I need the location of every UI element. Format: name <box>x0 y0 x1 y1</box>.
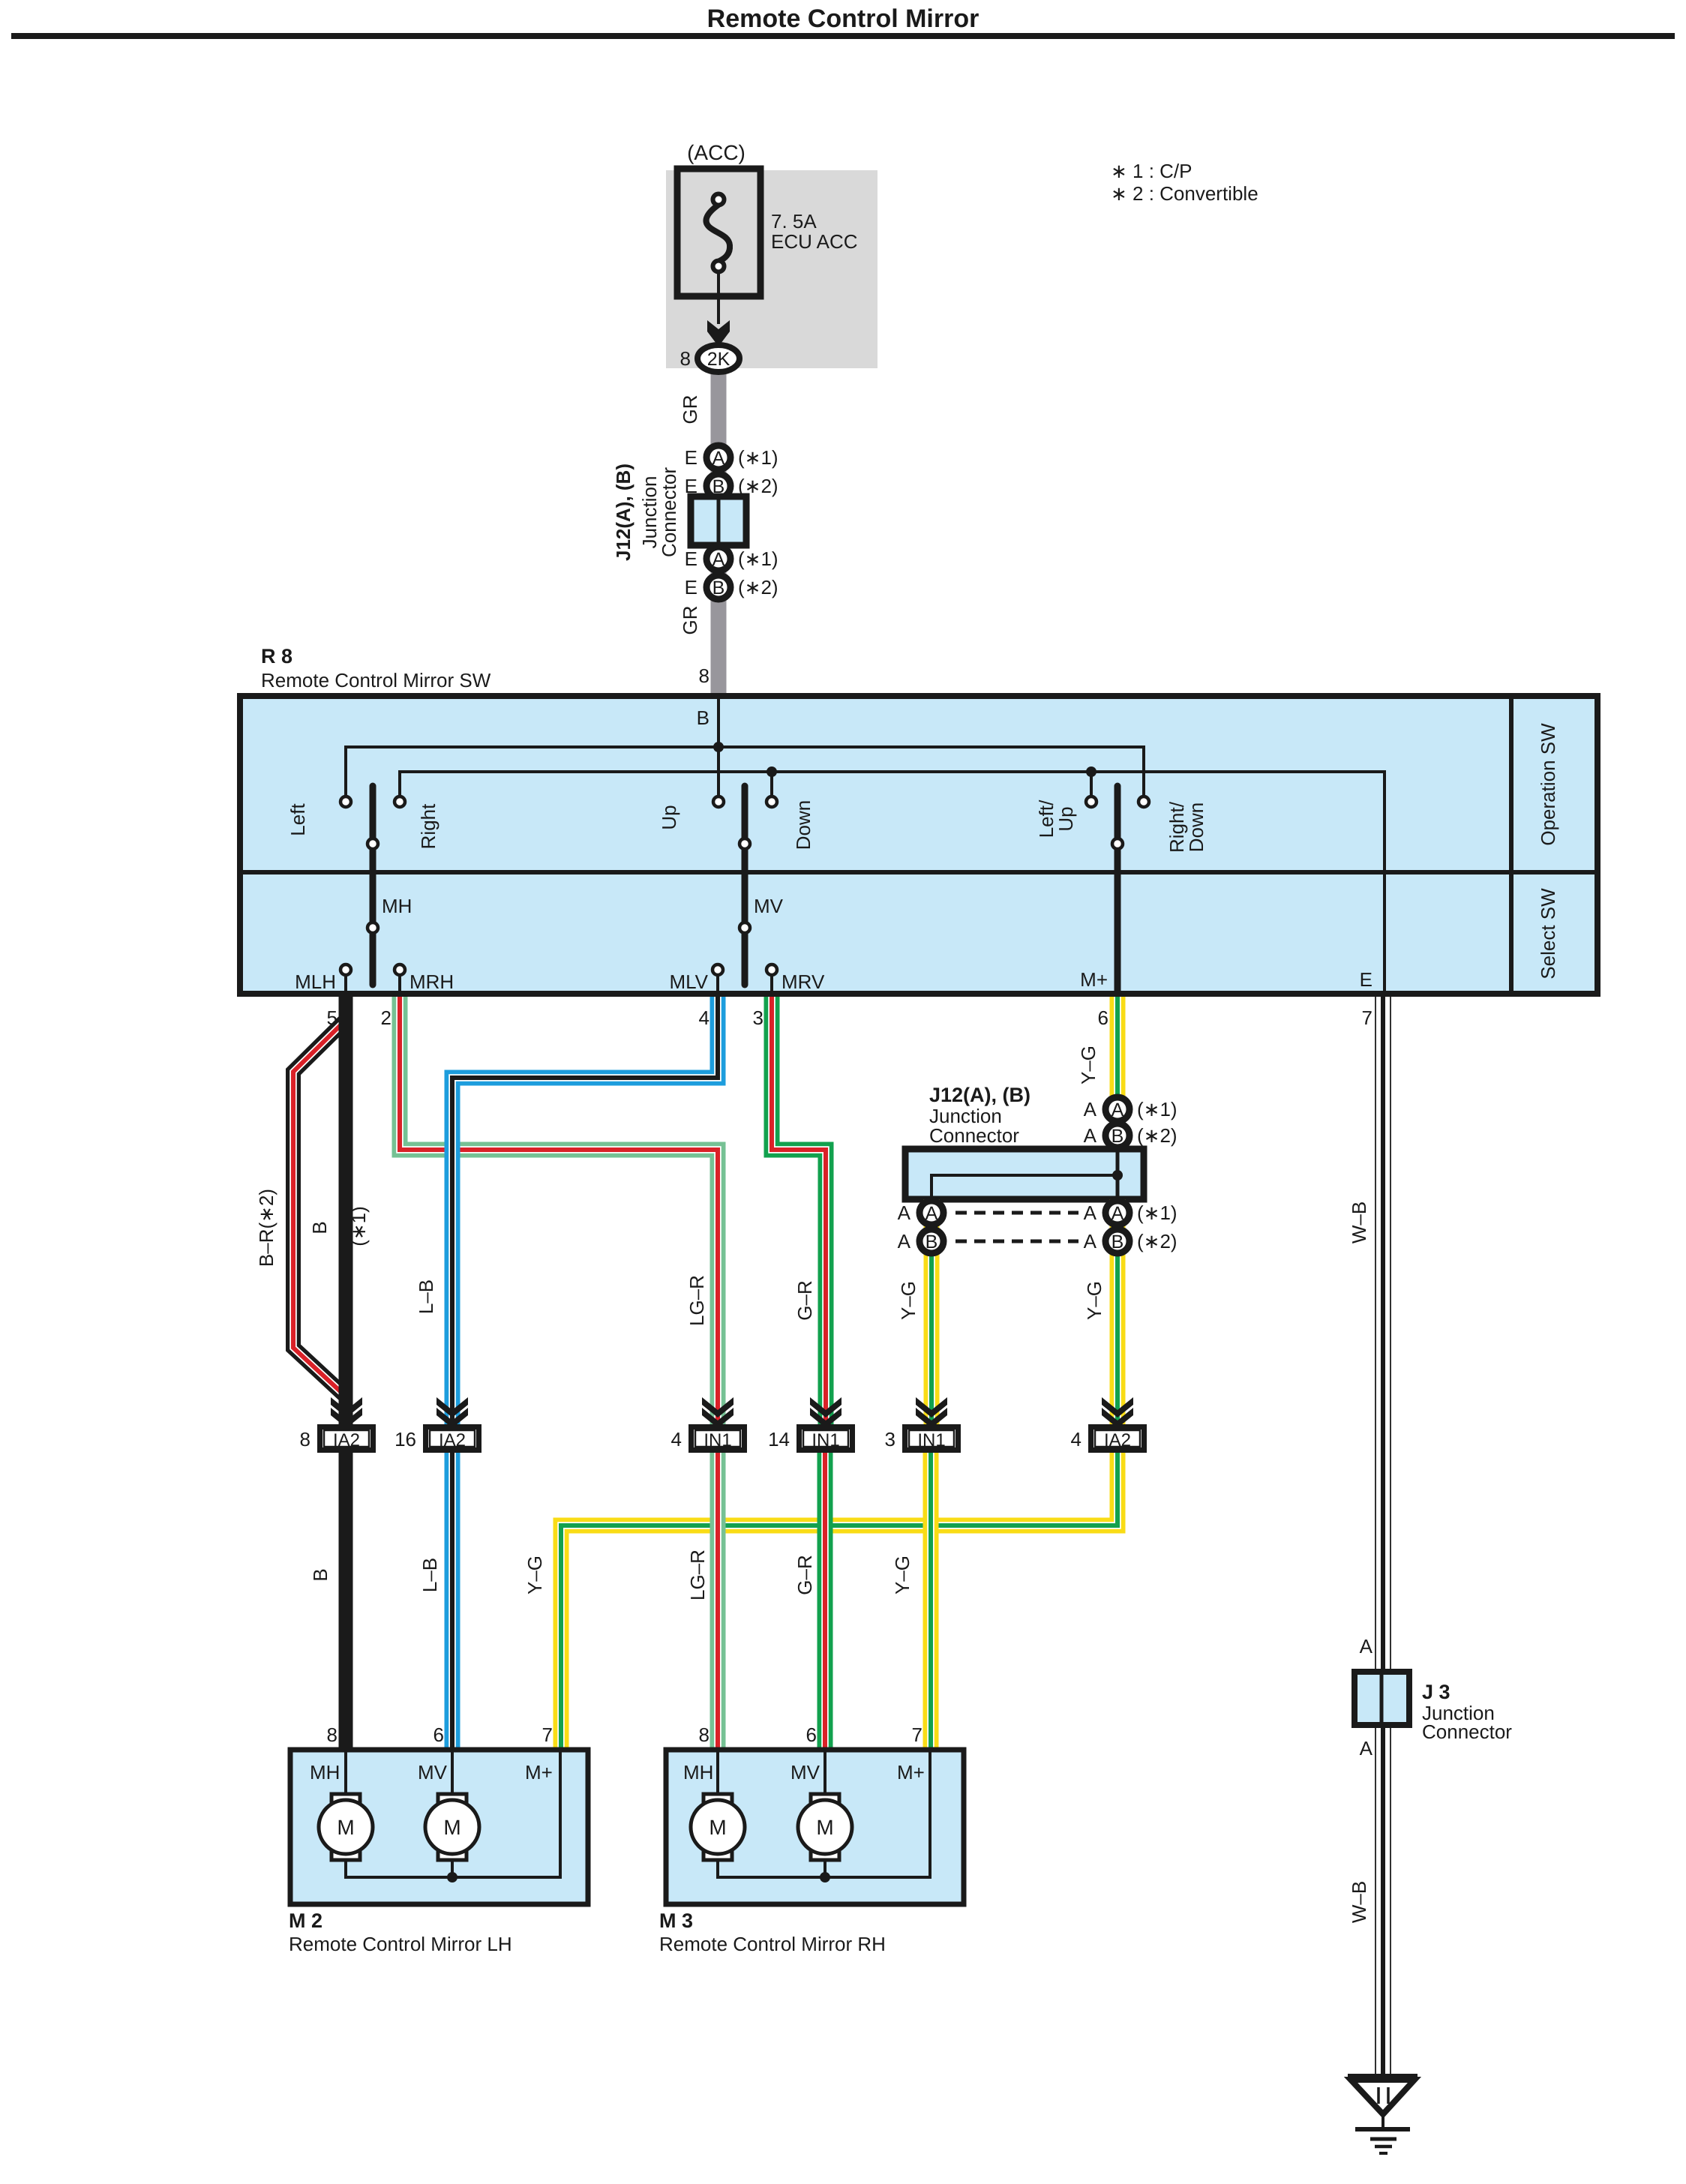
M2 wire MV to motor <box>451 1750 454 1798</box>
terminal MRV <box>766 964 825 994</box>
svg-text:Connector: Connector <box>1422 1720 1512 1743</box>
motor M (M3 vertical) <box>798 1794 852 1860</box>
wire L-B: IA2 pin16 to mirror M2 MV <box>445 1453 460 1751</box>
svg-text:MV: MV <box>790 1761 820 1783</box>
wire LG-R: IN1 pin4 to mirror M3 MH <box>710 1453 726 1751</box>
junction dot B bus <box>713 742 724 752</box>
terminal MRH <box>394 964 454 994</box>
svg-text:7: 7 <box>912 1723 922 1746</box>
svg-text:B: B <box>925 1231 938 1252</box>
svg-text:A: A <box>712 448 725 469</box>
wire: drop to Left/Up contact <box>1090 772 1093 796</box>
svg-text:E: E <box>685 547 697 570</box>
M2 wire M+ bus <box>344 1750 562 1877</box>
wire GR from 2K to R8 pin 8 <box>711 367 727 696</box>
svg-text:M+: M+ <box>525 1761 553 1783</box>
svg-text:Y–G: Y–G <box>897 1281 919 1320</box>
label J12(A),(B) Junction Connector (rotated) <box>612 463 680 561</box>
arrow into 2K <box>707 320 730 346</box>
M3 wire MH to motor <box>716 1750 719 1798</box>
terminal MLH <box>295 964 351 994</box>
svg-text:GR: GR <box>679 606 701 635</box>
junction dot Down contact <box>766 766 777 777</box>
svg-text:A: A <box>1360 1737 1373 1759</box>
contact Down <box>766 796 777 807</box>
svg-text:A: A <box>1084 1098 1097 1120</box>
svg-text:Connector: Connector <box>929 1124 1019 1147</box>
wire B-R (*2): MLH pin5 branch <box>293 1021 344 1395</box>
svg-text:(∗2): (∗2) <box>1137 1124 1177 1147</box>
svg-text:4: 4 <box>699 1006 709 1029</box>
connector oval 2K <box>697 345 739 372</box>
svg-text:A: A <box>1084 1230 1097 1252</box>
svg-text:(ACC): (ACC) <box>687 141 745 164</box>
connector IN1 pin 14 <box>768 1427 852 1451</box>
wire Y-G: M+ pin6 to J12 lower <box>1110 997 1126 1152</box>
svg-text:E: E <box>685 576 697 598</box>
svg-text:8: 8 <box>699 664 709 687</box>
svg-text:IA2: IA2 <box>439 1430 466 1450</box>
svg-text:8: 8 <box>699 1723 709 1746</box>
svg-text:8: 8 <box>300 1428 310 1450</box>
svg-text:MV: MV <box>754 895 784 917</box>
wire: E bus horizontal (Right/Down/LeftUp to E) <box>400 772 1384 994</box>
svg-text:(∗1): (∗1) <box>738 547 778 570</box>
svg-text:A: A <box>1111 1099 1124 1120</box>
svg-text:LG–R: LG–R <box>686 1549 709 1600</box>
arrow into IA2 pin8 <box>331 1397 362 1428</box>
svg-text:R 8: R 8 <box>261 645 292 667</box>
svg-text:IA2: IA2 <box>1104 1430 1131 1450</box>
svg-text:G–R: G–R <box>793 1280 816 1320</box>
dashed link B-B <box>955 1240 1078 1243</box>
svg-text:J12(A), (B): J12(A), (B) <box>929 1084 1030 1106</box>
junction connector J12 below-box pin A/A circle right (*1) <box>1084 1201 1177 1225</box>
svg-text:MRV: MRV <box>781 970 825 993</box>
svg-text:Up: Up <box>1054 806 1077 831</box>
title rule <box>11 33 1675 39</box>
arrow into IN1 pin14 <box>810 1397 841 1428</box>
svg-text:6: 6 <box>1098 1006 1108 1029</box>
svg-text:L–B: L–B <box>415 1279 437 1314</box>
wire: fuse to 2K <box>717 271 720 324</box>
svg-text:M+: M+ <box>1080 968 1108 991</box>
svg-text:MLV: MLV <box>669 970 708 993</box>
junction connector J3 <box>1354 1672 1409 1725</box>
junction dot Left/Up contact <box>1086 766 1096 777</box>
junction connector J12 upper: pin E/B circle <box>685 474 778 498</box>
svg-text:E: E <box>1360 968 1372 991</box>
wire: drop to Down contact <box>770 772 773 796</box>
svg-text:Remote Control Mirror RH: Remote Control Mirror RH <box>659 1933 886 1955</box>
svg-text:A: A <box>898 1230 911 1252</box>
ground symbol <box>1348 2077 1417 2153</box>
svg-text:Operation SW: Operation SW <box>1537 723 1559 846</box>
svg-text:M: M <box>709 1816 726 1839</box>
svg-text:Down: Down <box>792 800 814 850</box>
junction connector J12(A),(B) upper: pin E/A circle <box>685 445 778 469</box>
svg-text:M: M <box>443 1816 460 1839</box>
svg-text:A: A <box>1084 1124 1097 1147</box>
svg-text:A: A <box>1360 1635 1373 1657</box>
motor M (M2 horizontal) <box>319 1794 373 1860</box>
svg-text:6: 6 <box>806 1723 817 1746</box>
label Left/Up (rotated) <box>1035 799 1077 838</box>
svg-text:Up: Up <box>658 805 680 829</box>
svg-text:A: A <box>898 1201 911 1224</box>
connector IA2 pin 8 <box>300 1427 373 1451</box>
fuse 7.5A ECU ACC <box>677 169 858 296</box>
svg-text:8: 8 <box>680 347 691 370</box>
svg-text:Y–G: Y–G <box>1077 1045 1099 1084</box>
svg-text:Left: Left <box>286 803 309 836</box>
junction connector J12 below-box pin A/A circle left <box>898 1201 943 1225</box>
wire Y-G: J12 lower right leg to IA2 pin4 <box>1110 1199 1126 1424</box>
svg-text:Remote Control Mirror SW: Remote Control Mirror SW <box>261 669 491 691</box>
svg-text:M: M <box>337 1816 354 1839</box>
svg-text:8: 8 <box>327 1723 337 1746</box>
arrow into IN1 pin4 <box>702 1397 733 1428</box>
terminal MLV <box>669 964 723 994</box>
switch pole MH <box>367 786 412 985</box>
switch pole M+ <box>1112 786 1123 994</box>
svg-text:Connector: Connector <box>658 467 680 557</box>
junction connector J12 below-box pin A/B circle right (*2) <box>1084 1229 1177 1253</box>
junction connector J12 upper: lower pin E/B circle <box>685 575 778 599</box>
svg-text:M+: M+ <box>897 1761 925 1783</box>
motor M (M2 vertical) <box>425 1794 479 1860</box>
arrow into IA2 pin16 <box>436 1397 468 1428</box>
svg-text:Select SW: Select SW <box>1537 888 1559 979</box>
wire Y-G: J12 lower left leg to IN1 pin3 <box>924 1199 940 1424</box>
svg-text:B: B <box>697 706 709 729</box>
svg-text:E: E <box>685 446 697 469</box>
svg-text:3: 3 <box>753 1006 763 1029</box>
fuse block background <box>666 170 877 368</box>
svg-text:7. 5A: 7. 5A <box>771 210 817 232</box>
svg-text:A: A <box>925 1203 938 1224</box>
M2 wire MH to motor <box>344 1750 347 1798</box>
contact Right/Down <box>1138 796 1149 807</box>
mirror M2 Remote Control Mirror LH body <box>290 1750 588 1904</box>
wire Y-G: IA2 pin4 down-left to mirror M2 M+ <box>561 1453 1117 1751</box>
svg-text:(∗1): (∗1) <box>1137 1201 1177 1224</box>
svg-text:W–B: W–B <box>1348 1881 1370 1923</box>
svg-text:(∗1): (∗1) <box>738 446 778 469</box>
svg-text:IN1: IN1 <box>703 1430 731 1450</box>
junction connector J12 lower: pin A/A circle (*1) <box>1084 1097 1177 1121</box>
contact Up <box>713 796 724 807</box>
svg-text:∗ 1 : C/P: ∗ 1 : C/P <box>1111 160 1192 182</box>
svg-text:IN1: IN1 <box>917 1430 945 1450</box>
junction connector J12 lower box <box>905 1149 1144 1199</box>
svg-text:∗ 2 : Convertible: ∗ 2 : Convertible <box>1111 182 1258 205</box>
wire B: MLH pin5 to connector IA2 pin8 <box>339 997 353 1425</box>
motor M (M3 horizontal) <box>691 1794 745 1860</box>
svg-text:Y–G: Y–G <box>1083 1281 1105 1320</box>
label J12(A),(B) Junction Connector (middle) <box>929 1084 1030 1147</box>
svg-text:B: B <box>309 1568 331 1581</box>
wire LG-R: MRH pin2 to connector IN1 pin4 <box>400 997 718 1424</box>
wire G-R: IN1 pin14 to mirror M3 MV <box>817 1453 833 1751</box>
svg-text:Remote Control Mirror: Remote Control Mirror <box>707 4 979 33</box>
connector IN1 pin 3 <box>885 1427 958 1451</box>
arrow into IN1 pin3 <box>916 1397 947 1428</box>
svg-text:(∗2): (∗2) <box>738 576 778 598</box>
junction connector J12 upper: lower pin E/A circle <box>685 547 778 571</box>
label J 3 Junction Connector <box>1422 1681 1512 1743</box>
svg-text:7: 7 <box>542 1723 553 1746</box>
svg-text:3: 3 <box>885 1428 895 1450</box>
svg-text:MLH: MLH <box>295 970 336 993</box>
svg-text:B–R(∗2): B–R(∗2) <box>255 1189 277 1267</box>
svg-text:M: M <box>816 1816 833 1839</box>
connector IN1 pin 4 <box>671 1427 745 1451</box>
wire Y-G: IN1 pin3 to mirror M3 M+ <box>923 1453 939 1751</box>
svg-text:A: A <box>1084 1201 1097 1224</box>
svg-text:Right: Right <box>417 803 439 849</box>
contact Left/Up <box>1086 796 1096 807</box>
junction dot M3 bus <box>820 1872 830 1882</box>
svg-text:Down: Down <box>1185 802 1207 852</box>
M3 wire M+ bus <box>716 1750 931 1877</box>
svg-text:ECU ACC: ECU ACC <box>771 230 858 253</box>
svg-text:B: B <box>712 577 725 598</box>
svg-text:MH: MH <box>683 1761 713 1783</box>
svg-text:7: 7 <box>1362 1006 1372 1029</box>
switch R8 body <box>240 696 1597 994</box>
svg-text:A: A <box>1111 1203 1124 1224</box>
svg-text:MRH: MRH <box>409 970 454 993</box>
svg-text:B: B <box>1111 1231 1124 1252</box>
junction connector J12 below-box pin A/B circle left <box>898 1229 943 1253</box>
contact Right <box>394 796 405 807</box>
junction connector J12 lower: pin A/B circle (*2) <box>1084 1123 1177 1147</box>
M3 wire MV to motor <box>823 1750 826 1798</box>
svg-text:IN1: IN1 <box>811 1430 839 1450</box>
svg-text:GR: GR <box>679 395 701 424</box>
svg-text:IA2: IA2 <box>333 1430 360 1450</box>
junction connector J12 upper box <box>691 496 746 545</box>
switch pole MV <box>739 786 784 985</box>
wire B: IA2 pin8 to mirror M2 MH <box>339 1453 353 1751</box>
svg-text:M 3: M 3 <box>659 1909 693 1932</box>
svg-text:4: 4 <box>1071 1428 1081 1450</box>
wire: B bus horizontal (Left/Up/RightDown) <box>346 747 1144 796</box>
mirror M3 Remote Control Mirror RH body <box>666 1750 964 1904</box>
connector IA2 pin 16 <box>394 1427 478 1451</box>
svg-text:6: 6 <box>433 1723 444 1746</box>
wire W-B: E pin7 to ground <box>1375 997 1390 2077</box>
label Right/Down (rotated) <box>1165 801 1207 853</box>
svg-text:16: 16 <box>394 1428 416 1450</box>
svg-text:W–B: W–B <box>1348 1201 1370 1243</box>
arrow into IA2 pin4 <box>1102 1397 1133 1428</box>
svg-text:4: 4 <box>671 1428 682 1450</box>
svg-text:14: 14 <box>768 1428 790 1450</box>
svg-text:Remote Control Mirror LH: Remote Control Mirror LH <box>289 1933 512 1955</box>
svg-text:(∗1): (∗1) <box>347 1206 370 1246</box>
svg-text:(∗1): (∗1) <box>1137 1098 1177 1120</box>
svg-text:J 3: J 3 <box>1422 1681 1450 1703</box>
wire G-R: MRV pin3 to connector IN1 pin14 <box>772 997 826 1424</box>
svg-text:Y–G: Y–G <box>523 1555 546 1594</box>
svg-text:(∗2): (∗2) <box>1137 1230 1177 1252</box>
svg-text:2K: 2K <box>707 349 730 370</box>
contact Left <box>340 796 351 807</box>
svg-text:G–R: G–R <box>793 1555 816 1594</box>
svg-text:M 2: M 2 <box>289 1909 322 1932</box>
junction dot M2 bus <box>447 1872 457 1882</box>
wire L-B: MLV pin4 to connector IA2 pin16 <box>452 997 718 1424</box>
svg-text:MH: MH <box>382 895 412 917</box>
svg-text:Y–G: Y–G <box>891 1555 913 1594</box>
svg-text:J12(A), (B): J12(A), (B) <box>612 463 634 561</box>
svg-text:L–B: L–B <box>418 1558 441 1592</box>
svg-text:LG–R: LG–R <box>685 1275 708 1326</box>
svg-text:MV: MV <box>418 1761 448 1783</box>
dashed link A-A <box>955 1211 1078 1215</box>
svg-text:MH: MH <box>310 1761 340 1783</box>
svg-text:B: B <box>308 1221 331 1234</box>
svg-text:B: B <box>1111 1126 1124 1147</box>
svg-text:2: 2 <box>381 1006 391 1029</box>
connector IA2 pin 4 <box>1071 1427 1144 1451</box>
svg-text:A: A <box>712 549 725 570</box>
